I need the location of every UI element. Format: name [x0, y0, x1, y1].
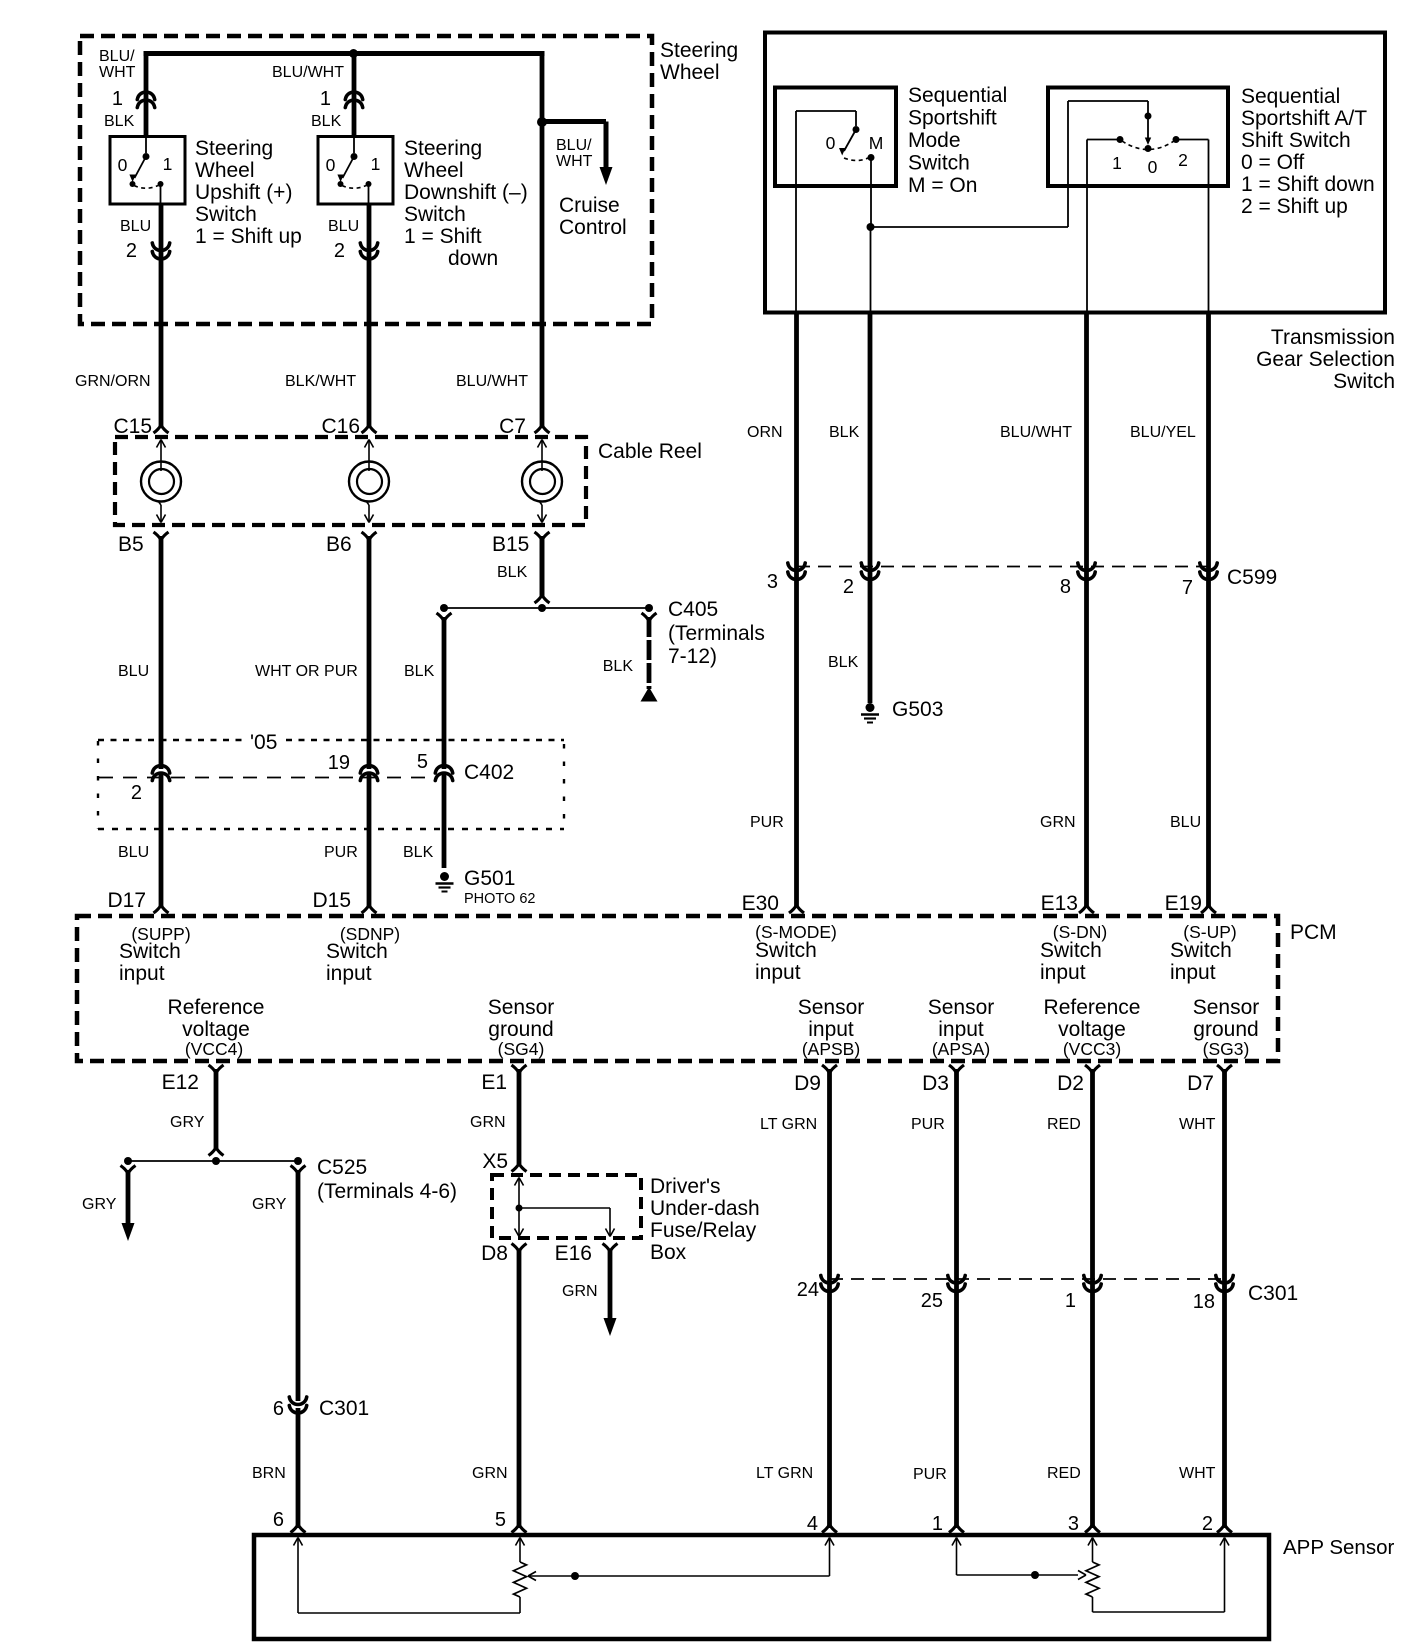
svg-text:BLU: BLU	[118, 663, 149, 680]
svg-text:GRY: GRY	[252, 1196, 287, 1213]
wire GRN from D8 to APP sensor	[517, 1249, 522, 1528]
svg-text:BLU/WHT: BLU/WHT	[272, 64, 344, 81]
svg-text:D2: D2	[1057, 1072, 1084, 1095]
wire PUR (C402 to PCM D15)	[367, 772, 372, 906]
svg-text:WHT: WHT	[1179, 1116, 1216, 1133]
svg-text:Sensor: Sensor	[488, 996, 555, 1019]
cable reel coil 1	[157, 440, 162, 448]
wire BLK (B15 to C405 node)	[540, 536, 545, 596]
svg-text:BLK: BLK	[104, 113, 135, 130]
svg-text:Driver's: Driver's	[650, 1175, 721, 1198]
svg-text:BLU/: BLU/	[556, 137, 592, 154]
connector half at C405 junction	[535, 595, 550, 603]
svg-text:(SG3): (SG3)	[1203, 1039, 1250, 1059]
fuse box internal wires	[515, 1178, 520, 1186]
svg-text:Switch: Switch	[908, 152, 970, 175]
svg-text:M = On: M = On	[908, 174, 977, 197]
svg-text:D8: D8	[481, 1242, 508, 1265]
svg-text:C301: C301	[1248, 1282, 1298, 1305]
component box Cable Reel (dashed)	[115, 437, 586, 525]
svg-text:ORN: ORN	[747, 424, 783, 441]
svg-text:6: 6	[273, 1509, 284, 1531]
svg-text:0: 0	[1148, 157, 1158, 177]
wire PUR (D3 to APP)	[954, 1069, 959, 1528]
svg-text:input: input	[119, 962, 165, 985]
wire BLU downshift lower segment	[367, 204, 372, 426]
svg-text:down: down	[448, 247, 498, 270]
svg-text:PUR: PUR	[324, 844, 358, 861]
svg-text:C16: C16	[321, 415, 360, 438]
svg-text:0: 0	[118, 155, 128, 175]
svg-text:3: 3	[1068, 1513, 1079, 1535]
cable reel coil 3	[538, 440, 543, 448]
wire BLK from junction down	[870, 227, 872, 313]
wire BLU/YEL	[1206, 313, 1211, 907]
svg-text:BLK: BLK	[497, 564, 528, 581]
svg-text:D17: D17	[107, 889, 146, 912]
svg-text:1 = Shift up: 1 = Shift up	[195, 225, 302, 248]
svg-text:1: 1	[1065, 1290, 1076, 1312]
svg-text:1: 1	[320, 88, 331, 110]
svg-text:BLK: BLK	[403, 844, 434, 861]
svg-text:(VCC3): (VCC3)	[1063, 1039, 1121, 1059]
svg-text:BLU/WHT: BLU/WHT	[456, 373, 528, 390]
svg-text:ground: ground	[488, 1018, 553, 1041]
svg-text:Steering: Steering	[195, 137, 273, 160]
svg-text:2 = Shift up: 2 = Shift up	[1241, 195, 1348, 218]
connector pin 1 (downshift switch)	[345, 92, 362, 100]
svg-text:BLU: BLU	[118, 844, 149, 861]
svg-text:Switch: Switch	[755, 939, 817, 962]
connector C402 pin 5	[435, 766, 452, 774]
connector C402 pin 2	[152, 766, 169, 774]
svg-text:7-12): 7-12)	[668, 645, 717, 668]
component box Steering Wheel (dashed)	[80, 36, 652, 324]
wire BLU/WHT top rail	[144, 51, 545, 56]
svg-text:E19: E19	[1165, 892, 1202, 915]
cable reel coil 2	[365, 440, 370, 448]
svg-text:(VCC4): (VCC4)	[185, 1039, 243, 1059]
connector C599 pin 3	[788, 563, 805, 571]
svg-text:24: 24	[797, 1279, 819, 1301]
switch Steering Wheel Upshift (+)	[110, 137, 185, 205]
svg-text:Shift Switch: Shift Switch	[1241, 129, 1351, 152]
svg-text:Switch: Switch	[195, 203, 257, 226]
svg-text:D7: D7	[1187, 1072, 1214, 1095]
svg-text:(APSB): (APSB)	[802, 1039, 860, 1059]
svg-text:GRN: GRN	[470, 1114, 506, 1131]
svg-text:5: 5	[417, 751, 428, 773]
connector C599 pin 8	[1078, 563, 1095, 571]
svg-text:2: 2	[126, 240, 137, 262]
svg-text:2: 2	[1178, 150, 1188, 170]
connector pin 2 (downshift switch)	[360, 243, 377, 251]
svg-text:8: 8	[1060, 576, 1071, 598]
wire ORN	[794, 313, 799, 907]
wire GRY from E12	[214, 1069, 219, 1149]
wire BLK upshift upper segment	[144, 54, 149, 137]
svg-text:5: 5	[495, 1509, 506, 1531]
svg-text:Wheel: Wheel	[404, 159, 464, 182]
svg-text:GRN: GRN	[1040, 814, 1076, 831]
svg-text:3: 3	[767, 571, 778, 593]
svg-text:LT GRN: LT GRN	[760, 1116, 817, 1133]
dashed divider line in C402	[99, 777, 436, 779]
svg-text:1 = Shift: 1 = Shift	[404, 225, 482, 248]
svg-text:Sportshift A/T: Sportshift A/T	[1241, 107, 1367, 130]
svg-text:BLK: BLK	[828, 654, 859, 671]
arrow to Cruise Control	[600, 167, 613, 185]
svg-text:G503: G503	[892, 698, 943, 721]
svg-text:Gear Selection: Gear Selection	[1256, 348, 1395, 371]
wire BLK right branch (dashed) to ground	[642, 613, 657, 621]
svg-text:ground: ground	[1193, 1018, 1258, 1041]
wire BLU upshift lower segment	[159, 204, 164, 426]
connector C301 pin 24	[821, 1276, 838, 1284]
svg-text:Switch: Switch	[326, 940, 388, 963]
wire BLK left branch to G501	[437, 613, 452, 621]
svg-text:Switch: Switch	[1040, 939, 1102, 962]
svg-text:0 = Off: 0 = Off	[1241, 151, 1304, 174]
wire RED (D2 to APP)	[1090, 1069, 1095, 1528]
svg-text:D15: D15	[312, 889, 351, 912]
svg-text:BLK: BLK	[311, 113, 342, 130]
svg-text:2: 2	[1202, 1513, 1213, 1535]
svg-text:WHT: WHT	[1179, 1465, 1216, 1482]
connector C599 pin 2	[861, 563, 878, 571]
wire GRY left branch with arrow	[121, 1166, 136, 1174]
svg-text:BLK: BLK	[404, 663, 435, 680]
svg-text:C15: C15	[113, 415, 152, 438]
svg-text:GRN: GRN	[472, 1465, 508, 1482]
svg-text:APP Sensor: APP Sensor	[1283, 1536, 1394, 1559]
wire BLU (C402 to PCM D17)	[159, 772, 164, 906]
wire GRN from E16 with arrow	[608, 1249, 613, 1319]
connector C599 pin 7	[1200, 563, 1217, 571]
connector C301 pin 25	[948, 1276, 965, 1284]
wire GRN from E1	[517, 1069, 522, 1164]
svg-text:Box: Box	[650, 1241, 687, 1264]
svg-text:C402: C402	[464, 761, 514, 784]
APP sensor internal wire pin1	[952, 1538, 957, 1546]
svg-text:Downshift (–): Downshift (–)	[404, 181, 528, 204]
svg-text:GRY: GRY	[82, 1196, 117, 1213]
svg-text:input: input	[755, 961, 801, 984]
svg-text:Control: Control	[559, 216, 627, 239]
svg-text:6: 6	[273, 1398, 284, 1420]
wire BLK downshift upper segment	[352, 54, 357, 137]
svg-text:voltage: voltage	[182, 1018, 250, 1041]
wire BLU/WHT	[1084, 313, 1089, 907]
svg-text:PHOTO 62: PHOTO 62	[464, 891, 535, 907]
svg-text:B6: B6	[326, 533, 352, 556]
potentiometer 2 (right)	[1086, 1562, 1099, 1597]
svg-text:BLU: BLU	[1170, 814, 1201, 831]
svg-text:1: 1	[1112, 153, 1122, 173]
svg-text:PCM: PCM	[1290, 921, 1337, 944]
svg-text:Wheel: Wheel	[660, 61, 720, 84]
connector C402 pin 19	[360, 766, 377, 774]
svg-text:(Terminals: (Terminals	[668, 622, 765, 645]
svg-text:BLU/YEL: BLU/YEL	[1130, 424, 1196, 441]
component box PCM (dashed)	[77, 916, 1278, 1061]
potentiometer 2 wiper arrow	[1078, 1571, 1086, 1576]
connector box C402 (dotted, '05)	[98, 739, 244, 741]
svg-text:C599: C599	[1227, 566, 1277, 589]
svg-text:Sequential: Sequential	[908, 84, 1007, 107]
wire LT GRN (D9 to APP)	[827, 1069, 832, 1528]
svg-text:WHT OR PUR: WHT OR PUR	[255, 663, 358, 680]
svg-text:RED: RED	[1047, 1465, 1081, 1482]
svg-text:Switch: Switch	[119, 940, 181, 963]
wire BLU/WHT cruise control branch	[540, 54, 545, 427]
svg-text:E16: E16	[555, 1242, 592, 1265]
svg-text:E13: E13	[1041, 892, 1078, 915]
svg-text:D9: D9	[794, 1072, 821, 1095]
svg-text:4: 4	[807, 1513, 818, 1535]
svg-text:C405: C405	[668, 598, 718, 621]
connector pin 2 (upshift switch)	[152, 243, 169, 251]
svg-text:Sensor: Sensor	[798, 996, 865, 1019]
svg-text:Transmission: Transmission	[1271, 326, 1395, 349]
svg-text:E12: E12	[162, 1071, 199, 1094]
svg-text:Sensor: Sensor	[1193, 996, 1260, 1019]
component box Transmission Gear Selection Switch	[765, 33, 1385, 313]
svg-text:WHT: WHT	[556, 153, 593, 170]
svg-text:PUR: PUR	[913, 1466, 947, 1483]
wire WHT OR PUR (B6 to C402)	[367, 536, 372, 769]
svg-text:BLK: BLK	[603, 658, 634, 675]
svg-text:2: 2	[334, 240, 345, 262]
svg-text:Steering: Steering	[404, 137, 482, 160]
svg-text:C525: C525	[317, 1156, 367, 1179]
svg-text:C7: C7	[499, 415, 526, 438]
svg-text:BLU: BLU	[328, 218, 359, 235]
node line at C405	[444, 607, 649, 609]
APP sensor internal wire pin6	[294, 1538, 299, 1546]
switch Sequential Sportshift A/T Shift Switch	[1048, 88, 1228, 187]
wire WHT (D7 to APP)	[1222, 1069, 1227, 1528]
svg-text:C301: C301	[319, 1397, 369, 1420]
junction node on BLU/WHT rail	[349, 49, 358, 58]
svg-text:D3: D3	[922, 1072, 949, 1095]
potentiometer 1 wiper	[528, 1572, 536, 1577]
svg-text:Cable Reel: Cable Reel	[598, 440, 702, 463]
wire BLU (B5 to C402)	[159, 536, 164, 769]
svg-text:18: 18	[1193, 1291, 1215, 1313]
svg-text:Reference: Reference	[1044, 996, 1141, 1019]
svg-text:RED: RED	[1047, 1116, 1081, 1133]
svg-text:WHT: WHT	[99, 64, 136, 81]
connector half at C525 node	[209, 1148, 224, 1156]
svg-text:input: input	[1040, 961, 1086, 984]
svg-text:B15: B15	[492, 533, 529, 556]
svg-text:E1: E1	[481, 1071, 507, 1094]
connector C599 dashed line	[797, 566, 1209, 568]
svg-text:GRN/ORN: GRN/ORN	[75, 373, 151, 390]
svg-text:input: input	[938, 1018, 984, 1041]
svg-text:Switch: Switch	[404, 203, 466, 226]
wire from M contact to junction	[870, 158, 872, 228]
svg-text:1 = Shift down: 1 = Shift down	[1241, 173, 1375, 196]
svg-text:2: 2	[843, 576, 854, 598]
svg-text:7: 7	[1182, 577, 1193, 599]
component box APP Sensor	[254, 1535, 1269, 1639]
svg-text:GRY: GRY	[170, 1114, 205, 1131]
svg-text:Reference: Reference	[168, 996, 265, 1019]
ground (triangle) for C405 branch	[641, 687, 658, 702]
svg-text:PUR: PUR	[750, 814, 784, 831]
svg-text:Switch: Switch	[1170, 939, 1232, 962]
connector C301 dashed line	[830, 1278, 1224, 1280]
svg-text:BLU/WHT: BLU/WHT	[1000, 424, 1072, 441]
potentiometer 1 (left)	[514, 1562, 527, 1597]
svg-text:Sensor: Sensor	[928, 996, 995, 1019]
svg-text:Sportshift: Sportshift	[908, 107, 997, 130]
wire BLK to G503	[868, 313, 873, 704]
connector C301 pin 6 (left)	[289, 1397, 306, 1405]
svg-text:voltage: voltage	[1058, 1018, 1126, 1041]
svg-text:input: input	[808, 1018, 854, 1041]
svg-text:25: 25	[921, 1290, 943, 1312]
svg-text:LT GRN: LT GRN	[756, 1465, 813, 1482]
svg-text:Cruise: Cruise	[559, 194, 620, 217]
svg-text:0: 0	[826, 133, 836, 153]
svg-text:BLK/WHT: BLK/WHT	[285, 373, 356, 390]
svg-text:Switch: Switch	[1333, 370, 1395, 393]
connector pin 1 (upshift switch)	[137, 92, 154, 100]
svg-text:M: M	[869, 133, 884, 153]
svg-text:B5: B5	[118, 533, 144, 556]
svg-text:Under-dash: Under-dash	[650, 1197, 760, 1220]
svg-text:(APSA): (APSA)	[932, 1039, 990, 1059]
switch Sequential Sportshift Mode Switch	[775, 88, 896, 187]
ground G503	[866, 703, 875, 712]
svg-text:1: 1	[163, 154, 173, 174]
svg-text:2: 2	[131, 782, 142, 804]
svg-text:'05: '05	[250, 731, 277, 754]
svg-text:Mode: Mode	[908, 129, 961, 152]
svg-text:19: 19	[328, 752, 350, 774]
svg-text:G501: G501	[464, 867, 515, 890]
svg-text:(Terminals 4-6): (Terminals 4-6)	[317, 1180, 457, 1203]
svg-text:BLU/: BLU/	[99, 48, 135, 65]
svg-text:Sequential: Sequential	[1241, 85, 1340, 108]
svg-text:0: 0	[326, 155, 336, 175]
ground G501	[440, 872, 449, 881]
svg-text:BLK: BLK	[829, 424, 860, 441]
switch Steering Wheel Downshift (-)	[318, 137, 393, 205]
svg-text:input: input	[326, 962, 372, 985]
node line C525	[128, 1160, 298, 1162]
svg-text:Fuse/Relay: Fuse/Relay	[650, 1219, 757, 1242]
svg-text:1: 1	[932, 1513, 943, 1535]
connector C301 pin 18	[1216, 1276, 1233, 1284]
svg-text:BRN: BRN	[252, 1465, 286, 1482]
svg-text:Wheel: Wheel	[195, 159, 255, 182]
svg-text:Steering: Steering	[660, 39, 738, 62]
wire GRY right branch to C301	[291, 1166, 306, 1174]
svg-text:Upshift (+): Upshift (+)	[195, 181, 292, 204]
svg-text:GRN: GRN	[562, 1283, 598, 1300]
component box Driver's Under-dash Fuse/Relay Box (dashed)	[492, 1175, 641, 1238]
svg-text:BLU: BLU	[120, 218, 151, 235]
svg-text:(SG4): (SG4)	[498, 1039, 545, 1059]
svg-text:1: 1	[371, 154, 381, 174]
svg-text:PUR: PUR	[911, 1116, 945, 1133]
wire BLK (C402 to G501)	[442, 772, 447, 868]
wire BRN to APP sensor	[296, 1408, 301, 1528]
svg-text:X5: X5	[482, 1150, 508, 1173]
connector C301 pin 1	[1084, 1276, 1101, 1284]
svg-text:input: input	[1170, 961, 1216, 984]
svg-text:E30: E30	[742, 892, 779, 915]
svg-text:1: 1	[112, 88, 123, 110]
